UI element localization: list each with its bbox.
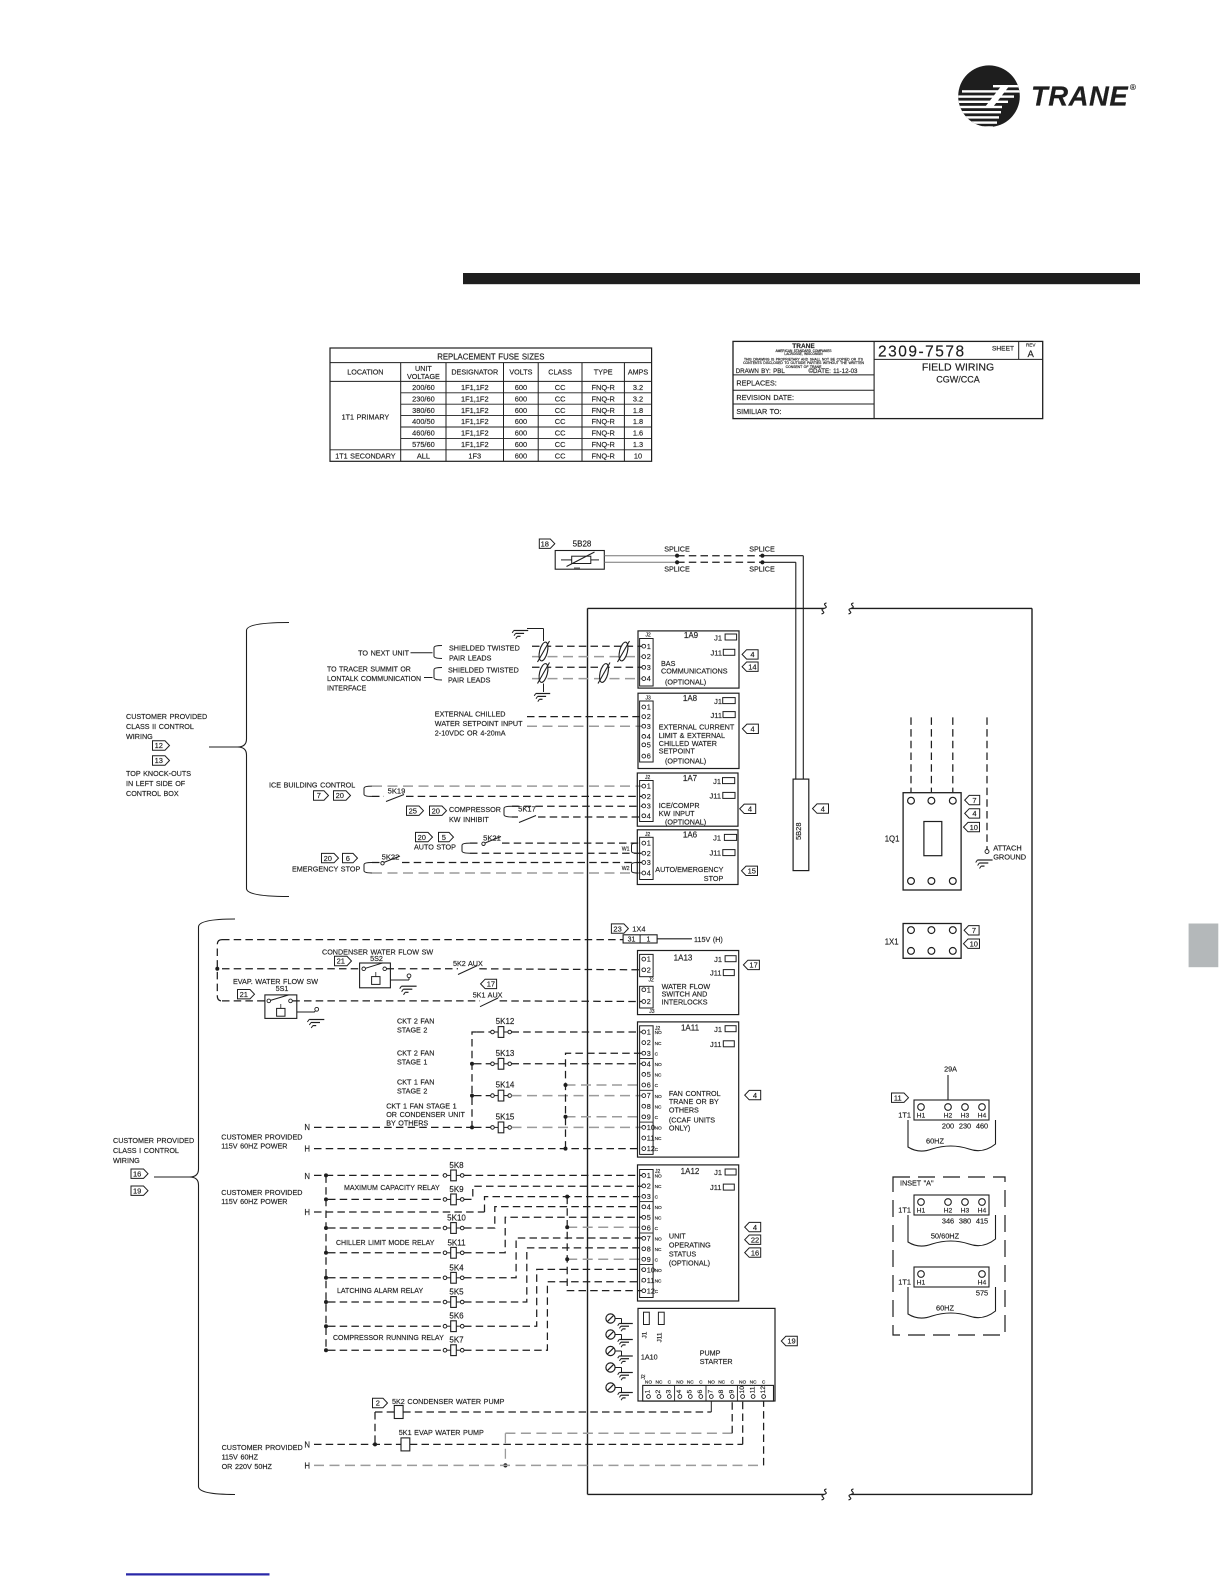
svg-text:NO: NO (655, 1126, 662, 1132)
svg-text:1: 1 (645, 1390, 652, 1394)
svg-text:600: 600 (515, 383, 527, 392)
svg-text:3: 3 (666, 1390, 673, 1394)
svg-text:SPLICE: SPLICE (664, 544, 690, 553)
svg-text:6: 6 (647, 752, 651, 761)
svg-text:J2: J2 (649, 978, 655, 984)
svg-text:1X4: 1X4 (632, 924, 645, 933)
svg-text:C: C (699, 1379, 703, 1385)
svg-text:H3: H3 (961, 1208, 970, 1215)
svg-text:NC: NC (718, 1379, 725, 1385)
svg-text:DESIGNATOR: DESIGNATOR (451, 368, 498, 377)
svg-text:5K10: 5K10 (447, 1214, 466, 1223)
svg-text:J1: J1 (714, 955, 722, 964)
svg-text:2: 2 (647, 1038, 651, 1047)
svg-text:FNQ-R: FNQ-R (591, 406, 614, 415)
svg-text:60HZ: 60HZ (926, 1137, 945, 1146)
svg-text:J11: J11 (710, 711, 722, 720)
svg-text:1A13: 1A13 (674, 954, 693, 963)
svg-text:J11: J11 (710, 969, 722, 978)
svg-text:5K12: 5K12 (496, 1017, 515, 1026)
svg-text:COMPRESSOR RUNNING RELAY: COMPRESSOR RUNNING RELAY (333, 1335, 444, 1342)
svg-text:29A: 29A (944, 1065, 957, 1074)
svg-text:7: 7 (972, 926, 976, 935)
svg-text:J11: J11 (656, 1332, 663, 1342)
svg-text:16: 16 (133, 1169, 141, 1178)
svg-text:NC: NC (656, 1379, 663, 1385)
svg-text:575/60: 575/60 (412, 440, 435, 449)
svg-text:15: 15 (748, 867, 756, 876)
svg-text:W2: W2 (622, 866, 630, 872)
svg-text:CUSTOMER PROVIDED: CUSTOMER PROVIDED (221, 1188, 302, 1197)
svg-text:H1: H1 (917, 1208, 926, 1215)
svg-text:2: 2 (647, 849, 651, 858)
svg-text:115V 60HZ: 115V 60HZ (222, 1452, 259, 1461)
svg-text:NO: NO (655, 1062, 662, 1068)
svg-text:5: 5 (442, 833, 446, 842)
svg-text:H4: H4 (978, 1113, 987, 1120)
svg-text:380/60: 380/60 (412, 406, 435, 415)
svg-text:1: 1 (647, 782, 651, 791)
svg-text:9: 9 (647, 1112, 651, 1121)
svg-text:J1: J1 (642, 1331, 649, 1338)
svg-text:CHILLER LIMIT MODE RELAY: CHILLER LIMIT MODE RELAY (336, 1240, 435, 1247)
svg-text:H2: H2 (944, 1113, 953, 1120)
svg-text:J2: J2 (641, 1374, 647, 1380)
svg-text:AUTO/EMERGENCY: AUTO/EMERGENCY (655, 865, 723, 874)
svg-text:4: 4 (647, 1059, 651, 1068)
svg-text:STOP: STOP (704, 874, 724, 883)
svg-text:H: H (304, 1461, 310, 1470)
svg-text:4: 4 (750, 650, 754, 659)
svg-text:1F1,1F2: 1F1,1F2 (461, 394, 489, 403)
svg-text:7: 7 (708, 1390, 715, 1394)
svg-text:20: 20 (418, 833, 426, 842)
svg-text:4: 4 (748, 805, 752, 814)
svg-text:16: 16 (751, 1248, 759, 1257)
svg-text:C: C (655, 1115, 659, 1121)
svg-text:J11: J11 (710, 1040, 722, 1049)
svg-text:ONLY): ONLY) (669, 1123, 690, 1132)
svg-text:NC: NC (655, 1136, 662, 1142)
svg-text:C: C (655, 1226, 659, 1232)
svg-text:6: 6 (647, 1223, 651, 1232)
svg-text:460: 460 (976, 1122, 988, 1131)
svg-text:INTERLOCKS: INTERLOCKS (662, 998, 708, 1007)
svg-text:14: 14 (748, 662, 756, 671)
svg-text:5K5: 5K5 (449, 1288, 464, 1297)
svg-text:17: 17 (749, 961, 757, 970)
svg-text:200/60: 200/60 (412, 383, 435, 392)
svg-text:600: 600 (515, 406, 527, 415)
svg-text:7: 7 (972, 796, 976, 805)
svg-text:J1: J1 (714, 697, 722, 706)
svg-text:C: C (655, 1083, 659, 1089)
svg-text:1A7: 1A7 (683, 774, 698, 783)
svg-text:2: 2 (376, 1399, 380, 1408)
svg-text:GROUND: GROUND (993, 853, 1026, 862)
svg-text:TYPE: TYPE (594, 368, 613, 377)
svg-text:NC: NC (687, 1379, 694, 1385)
svg-text:SPLICE: SPLICE (664, 565, 690, 574)
svg-text:7: 7 (647, 1234, 651, 1243)
svg-text:NO: NO (655, 1268, 662, 1274)
svg-text:TRANE: TRANE (1031, 81, 1129, 112)
svg-text:13: 13 (155, 756, 163, 765)
svg-text:2: 2 (647, 997, 651, 1006)
svg-text:5K2 AUX: 5K2 AUX (453, 959, 483, 968)
svg-text:1A12: 1A12 (681, 1167, 700, 1176)
svg-text:7: 7 (647, 1091, 651, 1100)
svg-text:1: 1 (647, 937, 651, 944)
svg-text:4: 4 (676, 1390, 683, 1394)
svg-text:J11: J11 (709, 849, 721, 858)
svg-text:230/60: 230/60 (412, 394, 435, 403)
svg-text:C: C (730, 1379, 734, 1385)
svg-text:OPERATING: OPERATING (669, 1240, 711, 1249)
svg-text:4: 4 (647, 674, 651, 683)
svg-text:REVISION DATE:: REVISION DATE: (736, 393, 794, 402)
svg-text:5K7: 5K7 (449, 1336, 464, 1345)
svg-text:(OPTIONAL): (OPTIONAL) (669, 1258, 710, 1267)
svg-text:IN LEFT SIDE OF: IN LEFT SIDE OF (126, 779, 186, 788)
svg-text:3: 3 (647, 1192, 651, 1201)
svg-text:COMMUNICATIONS: COMMUNICATIONS (661, 666, 728, 675)
svg-text:(OPTIONAL): (OPTIONAL) (665, 818, 706, 827)
svg-text:WIRING: WIRING (113, 1156, 140, 1165)
svg-text:1: 1 (647, 1171, 651, 1180)
svg-text:1: 1 (647, 985, 651, 994)
svg-text:NC: NC (750, 1379, 757, 1385)
svg-text:1: 1 (647, 955, 651, 964)
svg-text:VOLTS: VOLTS (509, 368, 532, 377)
svg-text:INSET "A": INSET "A" (900, 1179, 934, 1188)
svg-text:NO: NO (655, 1094, 662, 1100)
svg-text:2: 2 (655, 1390, 662, 1394)
svg-text:ALL: ALL (417, 451, 430, 460)
svg-text:4: 4 (751, 725, 755, 734)
svg-text:5K13: 5K13 (496, 1049, 515, 1058)
svg-text:CLASS I CONTROL: CLASS I CONTROL (113, 1146, 179, 1155)
svg-text:11: 11 (647, 1276, 655, 1285)
svg-text:NO: NO (739, 1379, 746, 1385)
svg-text:AMPS: AMPS (628, 368, 649, 377)
svg-text:1A11: 1A11 (681, 1024, 700, 1033)
svg-text:H1: H1 (917, 1113, 926, 1120)
svg-text:C: C (655, 1051, 659, 1057)
svg-text:J1: J1 (713, 834, 721, 843)
svg-text:LATCHING ALARM RELAY: LATCHING ALARM RELAY (337, 1288, 423, 1295)
svg-text:CC: CC (555, 440, 566, 449)
svg-text:8: 8 (647, 1244, 651, 1253)
svg-text:CLASS: CLASS (548, 368, 572, 377)
svg-text:11: 11 (647, 1134, 655, 1143)
svg-text:18: 18 (541, 539, 549, 548)
svg-text:5B28: 5B28 (573, 540, 592, 549)
svg-text:1: 1 (647, 1028, 651, 1037)
svg-text:19: 19 (133, 1186, 141, 1195)
svg-text:STARTER: STARTER (700, 1357, 733, 1366)
svg-text:50/60HZ: 50/60HZ (931, 1232, 960, 1241)
svg-text:PAIR LEADS: PAIR LEADS (449, 653, 492, 662)
svg-text:(OPTIONAL): (OPTIONAL) (665, 677, 706, 686)
svg-text:FNQ-R: FNQ-R (591, 417, 614, 426)
svg-text:10: 10 (970, 823, 978, 832)
svg-text:CUSTOMER PROVIDED: CUSTOMER PROVIDED (221, 1133, 302, 1142)
svg-text:12: 12 (155, 741, 163, 750)
svg-text:C: C (655, 1195, 659, 1201)
svg-text:ATTACH: ATTACH (993, 844, 1021, 853)
svg-text:23: 23 (613, 924, 621, 933)
svg-text:NO: NO (645, 1379, 652, 1385)
svg-text:10: 10 (634, 451, 642, 460)
svg-text:W1: W1 (622, 847, 630, 853)
svg-text:NO: NO (708, 1379, 715, 1385)
svg-text:4: 4 (647, 1202, 651, 1211)
svg-text:2: 2 (647, 792, 651, 801)
svg-text:SHIELDED TWISTED: SHIELDED TWISTED (448, 666, 519, 675)
svg-text:1: 1 (647, 642, 651, 651)
svg-text:LOCATION: LOCATION (347, 368, 383, 377)
svg-text:5: 5 (687, 1390, 694, 1394)
svg-text:STATUS: STATUS (669, 1249, 696, 1258)
svg-text:MAXIMUM CAPACITY RELAY: MAXIMUM CAPACITY RELAY (344, 1185, 440, 1192)
svg-text:WIRING: WIRING (126, 732, 153, 741)
svg-text:575: 575 (976, 1289, 988, 1298)
svg-text:SETPOINT: SETPOINT (659, 747, 696, 756)
svg-text:(OPTIONAL): (OPTIONAL) (665, 757, 706, 766)
svg-text:1.8: 1.8 (633, 417, 643, 426)
svg-text:1F3: 1F3 (468, 451, 481, 460)
svg-text:H4: H4 (978, 1208, 987, 1215)
svg-text:CKT 1 FAN STAGE 1: CKT 1 FAN STAGE 1 (386, 1101, 456, 1110)
svg-text:1: 1 (647, 839, 651, 848)
svg-text:VOLTAGE: VOLTAGE (407, 372, 440, 381)
svg-text:REPLACES:: REPLACES: (736, 379, 776, 388)
svg-text:1T1 SECONDARY: 1T1 SECONDARY (335, 451, 396, 460)
svg-text:CC: CC (555, 451, 566, 460)
svg-text:H3: H3 (961, 1113, 970, 1120)
svg-text:TOP KNOCK-OUTS: TOP KNOCK-OUTS (126, 769, 191, 778)
svg-text:1F1,1F2: 1F1,1F2 (461, 383, 489, 392)
svg-text:TO TRACER SUMMIT OR: TO TRACER SUMMIT OR (327, 667, 411, 674)
svg-text:BY OTHERS: BY OTHERS (386, 1119, 428, 1128)
svg-text:CONTROL BOX: CONTROL BOX (126, 789, 179, 798)
svg-text:J1: J1 (714, 1025, 722, 1034)
svg-text:5: 5 (647, 1070, 651, 1079)
svg-text:5S1: 5S1 (276, 984, 289, 993)
svg-text:22: 22 (751, 1235, 759, 1244)
svg-text:OR CONDENSER UNIT: OR CONDENSER UNIT (386, 1110, 465, 1119)
svg-text:C: C (762, 1379, 766, 1385)
svg-text:1Q1: 1Q1 (885, 834, 900, 843)
svg-text:COMPRESSOR: COMPRESSOR (449, 805, 501, 814)
svg-text:6: 6 (346, 854, 350, 863)
svg-text:1: 1 (647, 703, 651, 712)
svg-text:®: ® (1130, 83, 1136, 92)
svg-text:NC: NC (655, 1104, 662, 1110)
svg-text:EMERGENCY STOP: EMERGENCY STOP (292, 865, 360, 874)
svg-text:4: 4 (647, 811, 651, 820)
svg-text:CC: CC (555, 406, 566, 415)
svg-text:H2: H2 (944, 1208, 953, 1215)
svg-text:7: 7 (317, 791, 321, 800)
svg-text:WATER SETPOINT INPUT: WATER SETPOINT INPUT (435, 719, 523, 728)
svg-text:1F1,1F2: 1F1,1F2 (461, 440, 489, 449)
svg-text:FNQ-R: FNQ-R (591, 394, 614, 403)
svg-text:5K17: 5K17 (518, 804, 536, 813)
svg-text:CLASS II CONTROL: CLASS II CONTROL (126, 722, 194, 731)
svg-text:5K1 EVAP WATER PUMP: 5K1 EVAP WATER PUMP (399, 1428, 484, 1437)
svg-text:9: 9 (647, 1255, 651, 1264)
svg-text:DRAWN BY: PBL: DRAWN BY: PBL (736, 368, 786, 375)
svg-text:CGW/CCA: CGW/CCA (936, 374, 980, 384)
svg-text:6: 6 (697, 1390, 704, 1394)
svg-text:5: 5 (647, 1213, 651, 1222)
svg-text:5S2: 5S2 (370, 954, 383, 963)
svg-text:115V (H): 115V (H) (694, 935, 723, 944)
svg-text:2: 2 (647, 965, 651, 974)
svg-text:5K2 CONDENSER WATER PUMP: 5K2 CONDENSER WATER PUMP (392, 1397, 505, 1406)
svg-text:LONTALK COMMUNICATION: LONTALK COMMUNICATION (327, 676, 421, 683)
svg-text:5K1 AUX: 5K1 AUX (473, 990, 503, 999)
svg-text:OR 220V 50HZ: OR 220V 50HZ (222, 1462, 273, 1471)
svg-text:346: 346 (942, 1217, 954, 1226)
svg-text:J11: J11 (709, 791, 721, 800)
svg-text:N: N (304, 1172, 310, 1181)
svg-text:FNQ-R: FNQ-R (591, 451, 614, 460)
svg-text:SHEET: SHEET (992, 346, 1014, 353)
svg-text:C: C (655, 1257, 659, 1263)
svg-text:C: C (668, 1379, 672, 1385)
svg-text:ICE BUILDING CONTROL: ICE BUILDING CONTROL (269, 781, 355, 790)
svg-text:3: 3 (647, 802, 651, 811)
svg-text:CC: CC (555, 429, 566, 438)
svg-text:25: 25 (409, 806, 417, 815)
svg-text:KW INHIBIT: KW INHIBIT (449, 815, 489, 824)
svg-text:1T1: 1T1 (898, 1206, 911, 1215)
svg-text:N: N (304, 1440, 310, 1449)
svg-text:1T1 PRIMARY: 1T1 PRIMARY (342, 413, 390, 422)
svg-text:400/50: 400/50 (412, 417, 435, 426)
svg-text:A: A (1028, 349, 1035, 360)
svg-text:REPLACEMENT FUSE SIZES: REPLACEMENT FUSE SIZES (437, 352, 544, 361)
svg-text:STAGE 2: STAGE 2 (397, 1086, 427, 1095)
svg-text:1.3: 1.3 (633, 440, 643, 449)
svg-text:1A10: 1A10 (641, 1353, 658, 1362)
svg-text:2: 2 (647, 1182, 651, 1191)
svg-text:EXTERNAL CHILLED: EXTERNAL CHILLED (435, 710, 506, 719)
svg-text:21: 21 (240, 990, 248, 999)
svg-text:CUSTOMER PROVIDED: CUSTOMER PROVIDED (113, 1136, 194, 1145)
svg-text:415: 415 (976, 1217, 988, 1226)
svg-text:CKT 1 FAN: CKT 1 FAN (397, 1077, 434, 1086)
svg-text:11: 11 (894, 1093, 902, 1102)
svg-text:8: 8 (718, 1390, 725, 1394)
svg-text:NC: NC (655, 1216, 662, 1222)
svg-text:460/60: 460/60 (412, 429, 435, 438)
svg-text:SPLICE: SPLICE (749, 565, 775, 574)
svg-text:J1: J1 (714, 633, 722, 642)
svg-text:NC: NC (655, 1073, 662, 1079)
svg-text:INTERFACE: INTERFACE (327, 686, 367, 693)
svg-text:NC: NC (655, 1247, 662, 1253)
svg-text:H1: H1 (917, 1280, 926, 1287)
svg-text:3.2: 3.2 (633, 394, 643, 403)
svg-text:1A8: 1A8 (683, 694, 698, 703)
svg-text:H4: H4 (978, 1280, 987, 1287)
svg-text:4: 4 (647, 869, 651, 878)
svg-text:J11: J11 (710, 1183, 722, 1192)
svg-text:2: 2 (647, 712, 651, 721)
svg-text:6: 6 (647, 1081, 651, 1090)
svg-text:19: 19 (787, 1337, 795, 1346)
svg-text:LACROSSE, WISCONSIN: LACROSSE, WISCONSIN (784, 352, 823, 356)
svg-text:NC: NC (655, 1184, 662, 1190)
svg-text:1F1,1F2: 1F1,1F2 (461, 406, 489, 415)
svg-text:3: 3 (647, 722, 651, 731)
svg-text:1A9: 1A9 (684, 631, 699, 640)
svg-text:PAIR LEADS: PAIR LEADS (448, 675, 491, 684)
svg-text:600: 600 (515, 417, 527, 426)
svg-text:3: 3 (647, 1049, 651, 1058)
svg-text:3: 3 (647, 858, 651, 867)
svg-text:NC: NC (655, 1278, 662, 1284)
svg-text:1X1: 1X1 (885, 937, 899, 946)
svg-text:EXTERNAL CURRENT: EXTERNAL CURRENT (659, 722, 735, 731)
svg-text:J2: J2 (655, 1026, 661, 1032)
svg-text:CUSTOMER PROVIDED: CUSTOMER PROVIDED (126, 712, 207, 721)
svg-text:UNIT: UNIT (669, 1231, 686, 1240)
svg-text:REV: REV (1026, 343, 1036, 348)
svg-text:SPLICE: SPLICE (749, 544, 775, 553)
svg-text:NO: NO (655, 1205, 662, 1211)
svg-text:J1: J1 (714, 1168, 722, 1177)
svg-text:CUSTOMER PROVIDED: CUSTOMER PROVIDED (222, 1443, 303, 1452)
svg-text:3.2: 3.2 (633, 383, 643, 392)
svg-text:1.8: 1.8 (633, 406, 643, 415)
svg-text:10: 10 (739, 1386, 746, 1394)
svg-text:2309-7578: 2309-7578 (878, 344, 966, 361)
svg-text:115V 60HZ POWER: 115V 60HZ POWER (221, 1142, 287, 1151)
svg-text:C: C (655, 1147, 659, 1153)
svg-text:5: 5 (647, 740, 651, 749)
svg-text:600: 600 (515, 429, 527, 438)
svg-text:600: 600 (515, 451, 527, 460)
svg-text:4: 4 (753, 1223, 757, 1232)
svg-text:J2: J2 (646, 633, 652, 639)
svg-text:600: 600 (515, 394, 527, 403)
svg-text:5B28: 5B28 (794, 822, 803, 840)
svg-text:5K4: 5K4 (449, 1263, 464, 1272)
svg-text:10: 10 (970, 939, 978, 948)
svg-text:60HZ: 60HZ (936, 1304, 955, 1313)
svg-text:2-10VDC OR 4-20mA: 2-10VDC OR 4-20mA (435, 729, 506, 738)
svg-text:200: 200 (942, 1122, 954, 1131)
svg-text:11: 11 (749, 1386, 756, 1393)
svg-text:8: 8 (647, 1102, 651, 1111)
svg-text:STAGE 1: STAGE 1 (397, 1057, 427, 1066)
svg-text:9: 9 (728, 1390, 735, 1394)
svg-text:1A6: 1A6 (683, 831, 698, 840)
svg-text:H: H (304, 1145, 310, 1154)
svg-text:5K8: 5K8 (449, 1161, 464, 1170)
svg-text:CKT 2 FAN: CKT 2 FAN (397, 1016, 434, 1025)
svg-text:4: 4 (821, 804, 825, 813)
svg-text:20: 20 (324, 854, 332, 863)
svg-text:CC: CC (555, 394, 566, 403)
svg-text:NO: NO (655, 1237, 662, 1243)
svg-text:©DATE: 11-12-03: ©DATE: 11-12-03 (809, 368, 859, 375)
